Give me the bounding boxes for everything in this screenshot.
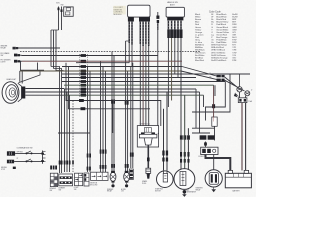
- svg-text:Pink/Black: Pink/Black: [216, 60, 227, 62]
- wire tint green headlamp: [64, 84, 214, 86]
- connector drop w1: [87, 167, 89, 171]
- wire tint red main: [22, 60, 182, 62]
- connector left 1: [13, 47, 16, 50]
- diode cluster D1: [237, 87, 242, 92]
- connector bracket left: [42, 151, 44, 164]
- svg-text:LIGHT: LIGHT: [74, 187, 79, 189]
- handlebar switch S2: [166, 7, 184, 17]
- wire tint red battery: [241, 103, 243, 170]
- wire tint green low: [64, 94, 204, 96]
- wire bus horizontal y133: [58, 132, 90, 134]
- wire drop w2: [100, 61, 102, 172]
- starter relay SR1: [205, 170, 222, 187]
- connector block B3: [84, 173, 89, 186]
- wire ignition switch leads: [58, 7, 60, 31]
- wire right horizontals: [192, 127, 215, 129]
- wire CDI bundle left: [128, 22, 130, 44]
- wire tint red solenoid: [213, 86, 215, 122]
- wire handlebar bundle: [167, 20, 169, 29]
- wire drop winker2: [125, 41, 127, 171]
- battery BAT1: [225, 173, 251, 188]
- connector left 2: [14, 54, 17, 57]
- connector starter leads: [162, 151, 164, 156]
- connector handlebar switch: [167, 17, 183, 20]
- svg-text:ST: ST: [17, 158, 19, 160]
- wire starter leads: [163, 109, 165, 170]
- wire loop mid2: [69, 67, 151, 109]
- svg-text:IGNITION COIL: IGNITION COIL: [140, 124, 151, 126]
- svg-text:IGNITION: IGNITION: [90, 182, 98, 184]
- svg-text:Yel/White: Yel/White: [216, 51, 226, 54]
- connector generator leads: [180, 152, 182, 157]
- svg-text:SW: SW: [61, 5, 64, 7]
- wire handlebar bundle lower: [167, 38, 169, 107]
- rectifier box RR1: [212, 117, 217, 126]
- wire spark cable: [147, 145, 149, 168]
- wire battery cable: [206, 155, 231, 171]
- wire right diagonal 2: [225, 77, 245, 91]
- connector left 3: [14, 60, 17, 63]
- wire drop small j: [130, 67, 132, 169]
- svg-text:WINKER: WINKER: [50, 188, 57, 190]
- wire generator leads: [180, 140, 182, 170]
- wire tint yellow: [20, 70, 181, 72]
- connector bus bands: [50, 166, 52, 170]
- connector block B1: [59, 174, 73, 186]
- starter motor M1: [157, 171, 174, 188]
- fuse block main: [201, 147, 218, 154]
- wire tint red cdi: [142, 46, 144, 126]
- headlight socket: [22, 87, 26, 99]
- switch S4 row2: [7, 160, 14, 164]
- wire solenoid feed: [213, 85, 215, 121]
- wire tint yellow hb: [171, 38, 173, 101]
- connector mid2: [81, 107, 86, 110]
- wire headlight upper: [19, 71, 41, 83]
- connector CDI left: [128, 17, 134, 21]
- svg-text:WINKER: WINKER: [107, 189, 114, 191]
- ignition coil T1: [141, 132, 145, 134]
- connector w1 mid: [87, 154, 89, 158]
- connector mid1: [79, 99, 84, 102]
- connector drop w2: [100, 165, 102, 169]
- spark plug P1: [146, 168, 151, 173]
- coil connector: [144, 128, 151, 133]
- connector CDI right: [139, 17, 150, 21]
- wire right diagonal 1: [182, 67, 217, 77]
- svg-text:LIGHT: LIGHT: [1, 61, 6, 63]
- svg-text:Red/White: Red/White: [216, 41, 227, 44]
- svg-text:Lt. blue: Lt. blue: [195, 41, 203, 44]
- svg-text:HORN: HORN: [121, 189, 126, 191]
- wire right loops: [192, 74, 230, 133]
- svg-text:COMBINATION SW: COMBINATION SW: [17, 146, 33, 149]
- svg-text:Blue/White: Blue/White: [216, 16, 227, 19]
- label tint cdi: [113, 6, 126, 15]
- wire harness band: [20, 51, 200, 53]
- wire drop w1: [87, 67, 89, 173]
- svg-text:MOTOR: MOTOR: [155, 190, 162, 192]
- wire headlight leads: [25, 88, 64, 90]
- ground starter relay: [212, 187, 215, 192]
- connector band row: [180, 135, 183, 139]
- connector handlebar band: [167, 29, 182, 38]
- svg-text:P/Bl: P/Bl: [232, 60, 236, 62]
- connector winker2 mid: [125, 101, 127, 105]
- wire left loop: [21, 61, 45, 70]
- connector column inline: [81, 54, 86, 57]
- connector drop winker1: [111, 164, 113, 168]
- CDI unit U1: [128, 5, 150, 17]
- table continuity: [50, 173, 57, 186]
- ground alternator: [183, 190, 187, 194]
- svg-text:STOP: STOP: [1, 169, 5, 171]
- svg-text:Green/White: Green/White: [216, 28, 229, 31]
- svg-text:Bu: Bu: [210, 76, 212, 78]
- ignition coil assembly box: [137, 126, 158, 147]
- svg-text:Brn/White: Brn/White: [195, 54, 205, 57]
- headlight LP1: [2, 82, 19, 104]
- wire single connector drop: [157, 30, 159, 133]
- svg-text:CL: CL: [128, 182, 130, 184]
- connector single J2: [156, 16, 159, 19]
- svg-text:RELAY: RELAY: [1, 47, 7, 50]
- connector drop winker2: [125, 164, 127, 168]
- svg-text:ENGINE: ENGINE: [1, 167, 7, 169]
- wire right pair: [241, 103, 243, 171]
- svg-text:ASSY: ASSY: [170, 3, 176, 6]
- connector block B4 arrows: [91, 172, 108, 180]
- svg-text:SW: SW: [1, 55, 4, 57]
- svg-text:DIMMER: DIMMER: [59, 188, 66, 190]
- ignition switch S1: [64, 7, 73, 16]
- wire mid drops: [64, 89, 66, 172]
- svg-text:Color Code: Color Code: [209, 10, 221, 13]
- wire coil top feeds: [157, 132, 160, 135]
- connector right pair: [217, 75, 221, 77]
- wire CDI bundle right verticals: [139, 22, 141, 45]
- wire tint green gen: [184, 96, 186, 168]
- wire loop mid1: [66, 63, 113, 133]
- wire drop winker1: [111, 52, 113, 172]
- svg-text:Blk/White: Blk/White: [195, 44, 205, 47]
- svg-text:SW CONT: SW CONT: [90, 184, 98, 186]
- wire left bus: [50, 30, 52, 67]
- winker relay WR2: [124, 172, 130, 181]
- svg-text:Pink/White: Pink/White: [216, 39, 227, 42]
- svg-text:White: White: [195, 16, 201, 19]
- switch S3 row1: [7, 151, 15, 155]
- wire coil side feed: [113, 101, 161, 127]
- alternator G1: [174, 169, 195, 190]
- connector w2 mid: [100, 150, 102, 154]
- connector small j bands: [130, 153, 132, 157]
- fuse F1: [238, 98, 247, 103]
- connector small J3: [130, 169, 134, 180]
- svg-text:Blue/Red: Blue/Red: [195, 60, 205, 62]
- connector block B2: [75, 173, 83, 186]
- svg-text:HEADLIGHT: HEADLIGHT: [7, 78, 17, 81]
- winker relay WR1: [110, 172, 116, 181]
- connector winker1 mid: [111, 100, 113, 104]
- svg-text:Lt. green: Lt. green: [195, 33, 204, 36]
